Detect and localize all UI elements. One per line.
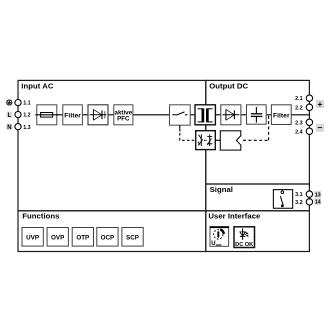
section box Signal	[206, 184, 310, 211]
node plus label box	[316, 99, 324, 109]
terminal 2.2 DC plus	[306, 104, 312, 110]
terminal 1.1 PE	[15, 100, 21, 106]
svg-text:OTP: OTP	[76, 234, 89, 241]
svg-text:−: −	[317, 123, 322, 133]
svg-text:13: 13	[315, 192, 321, 198]
transformer T1	[195, 105, 215, 125]
input filter box	[63, 105, 83, 125]
function box UVP	[22, 228, 43, 247]
svg-text:L: L	[8, 113, 12, 119]
function box SCP	[122, 228, 143, 247]
svg-text:N: N	[7, 125, 11, 131]
svg-text:2.4: 2.4	[295, 129, 303, 135]
node 13 label box	[314, 191, 321, 198]
terminal 1.3 N	[15, 124, 21, 130]
wire dashed feedback riser to DC bus	[268, 115, 270, 140]
svg-text:2.3: 2.3	[295, 120, 303, 126]
svg-text:14: 14	[315, 200, 321, 206]
user interface DC OK LED box	[234, 227, 255, 248]
svg-text:Output DC: Output DC	[209, 82, 248, 91]
wire PFC to switching stage	[133, 114, 170, 116]
node L label box	[6, 112, 12, 119]
svg-text:Signal: Signal	[210, 185, 233, 194]
node N label box	[6, 124, 12, 131]
relay contact box	[273, 190, 292, 209]
svg-text:OCP: OCP	[101, 234, 115, 241]
svg-text:1.3: 1.3	[23, 125, 31, 131]
control unit box	[220, 131, 242, 150]
wire capacitor to output filter	[266, 114, 271, 116]
wire output diode to capacitor	[241, 114, 247, 116]
section box Functions	[18, 211, 206, 252]
section box Input AC	[18, 80, 206, 210]
node minus label box	[316, 123, 324, 133]
active PFC box	[114, 105, 133, 125]
function box OTP	[72, 228, 93, 247]
svg-text:2.2: 2.2	[295, 105, 303, 111]
wire dashed feedback control unit to output node	[243, 139, 269, 141]
terminal 3.2 signal relay	[306, 199, 312, 205]
terminal 2.1 DC plus	[306, 95, 312, 101]
function box OVP	[47, 228, 68, 247]
synchronous rectifier box	[196, 131, 216, 150]
svg-text:User Interface: User Interface	[208, 212, 261, 221]
svg-text:+: +	[317, 99, 322, 109]
svg-text:Input AC: Input AC	[21, 82, 54, 91]
svg-text:SCP: SCP	[126, 234, 139, 241]
svg-text:PFC: PFC	[117, 116, 130, 123]
output diode box	[221, 105, 241, 125]
svg-text:Filter: Filter	[273, 112, 290, 119]
output filter box	[271, 105, 291, 125]
svg-text:2.1: 2.1	[295, 96, 303, 102]
node 14 label box	[314, 198, 321, 205]
wire sync rectifier to control unit	[215, 139, 220, 141]
svg-text:DC OK: DC OK	[235, 242, 253, 248]
svg-text:U: U	[211, 241, 215, 247]
terminal 3.1 signal relay	[306, 191, 312, 197]
terminal 1.2 L	[15, 112, 21, 118]
wire input filter to rectifier	[82, 114, 88, 116]
svg-text:Filter: Filter	[64, 112, 81, 119]
wire dashed switching stage to sync rectifier	[180, 133, 196, 140]
ground PE label box	[6, 100, 12, 106]
section box User Interface	[206, 211, 310, 252]
wire output filter to output terminals	[291, 114, 309, 116]
terminal 2.3 DC minus	[306, 119, 312, 125]
svg-text:3.1: 3.1	[295, 192, 303, 198]
wire switching stage down stub	[179, 125, 181, 132]
terminal 2.4 DC minus	[306, 128, 312, 134]
wire switching stage to transformer	[190, 114, 195, 116]
svg-text:OVP: OVP	[51, 234, 64, 241]
svg-text:1.1: 1.1	[23, 101, 31, 107]
wire fuse to input filter	[57, 114, 63, 116]
output capacitor box	[247, 105, 267, 124]
user interface Uout adjuster box	[210, 227, 230, 247]
wire rectifier to PFC	[108, 114, 114, 116]
svg-text:out: out	[216, 243, 222, 247]
switching stage box	[170, 105, 191, 125]
section box Output DC	[206, 80, 310, 184]
svg-text:1.2: 1.2	[23, 113, 31, 119]
svg-text:UVP: UVP	[26, 234, 39, 241]
fuse F1	[35, 105, 58, 125]
svg-text:3.2: 3.2	[295, 200, 303, 206]
function box OCP	[97, 228, 118, 247]
wire transformer to output diode	[215, 114, 220, 116]
input rectifier box	[88, 105, 108, 125]
svg-text:Functions: Functions	[22, 212, 59, 221]
